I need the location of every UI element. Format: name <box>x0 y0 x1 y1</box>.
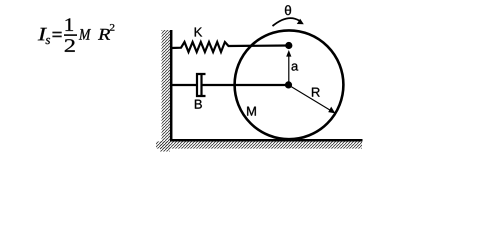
label M <box>247 107 256 116</box>
disk M <box>235 30 344 139</box>
damper rod right <box>202 84 289 86</box>
arrow R <box>289 85 336 113</box>
corner hatching <box>160 141 170 152</box>
label R <box>312 88 320 97</box>
damper piston <box>200 75 202 95</box>
label K <box>195 28 202 37</box>
floor hatching <box>156 141 362 148</box>
theta arc arrow <box>273 18 304 26</box>
wall <box>170 30 173 141</box>
node: spring attachment <box>285 42 292 49</box>
wall hatching <box>162 30 171 141</box>
label a <box>292 64 299 71</box>
label theta <box>285 5 291 15</box>
floor <box>170 139 363 142</box>
label B <box>195 100 202 109</box>
node: disk center <box>285 81 292 88</box>
arrow a <box>286 50 291 84</box>
damper rod left <box>172 84 197 86</box>
damper cylinder <box>197 74 206 96</box>
equation I_s = 1/2 M R^2 <box>38 18 115 51</box>
spring K <box>172 42 289 52</box>
